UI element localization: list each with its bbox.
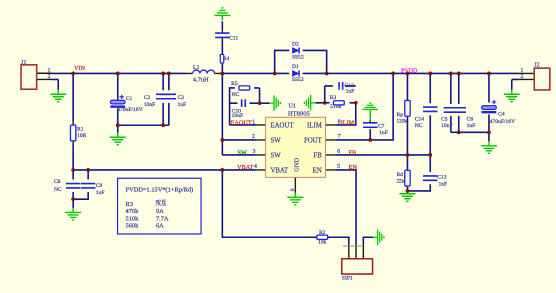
svg-text:SW: SW: [270, 137, 281, 144]
svg-text:510k: 510k: [330, 104, 341, 110]
svg-text:7: 7: [338, 134, 341, 140]
svg-text:Rp: Rp: [397, 112, 404, 118]
svg-text:7.7A: 7.7A: [156, 215, 169, 222]
svg-text:470k: 470k: [126, 208, 140, 215]
svg-text:D1: D1: [292, 64, 299, 70]
svg-text:C3: C3: [177, 95, 184, 101]
svg-text:4.7uH: 4.7uH: [193, 77, 209, 84]
svg-text:EN: EN: [349, 164, 358, 171]
svg-text:C6: C6: [467, 116, 474, 122]
svg-text:10nF: 10nF: [144, 102, 156, 108]
svg-text:U1: U1: [288, 102, 296, 109]
svg-text:3: 3: [253, 149, 256, 155]
svg-text:120k: 120k: [397, 119, 408, 125]
svg-text:8: 8: [338, 119, 341, 125]
svg-text:470uF/16V: 470uF/16V: [490, 119, 516, 125]
svg-text:R4: R4: [223, 56, 229, 62]
svg-text:1nF: 1nF: [379, 130, 388, 136]
svg-text:SW: SW: [270, 152, 281, 159]
svg-text:FB: FB: [313, 152, 322, 159]
svg-text:2: 2: [252, 134, 255, 140]
svg-text:R5: R5: [231, 81, 238, 87]
svg-text:L1: L1: [193, 65, 200, 71]
svg-text:C9: C9: [96, 183, 103, 189]
svg-text:NC: NC: [415, 123, 423, 129]
svg-text:5: 5: [337, 164, 340, 170]
svg-text:6A: 6A: [156, 223, 164, 230]
svg-text:C11: C11: [229, 35, 238, 41]
svg-text:POUT: POUT: [304, 137, 323, 144]
svg-text:C7: C7: [378, 124, 385, 130]
svg-text:22k: 22k: [396, 179, 404, 185]
svg-text:C13: C13: [437, 175, 447, 181]
svg-text:EAOUT: EAOUT: [231, 119, 252, 126]
svg-text:2: 2: [520, 74, 523, 80]
svg-text:2: 2: [47, 74, 50, 80]
svg-text:VBAT: VBAT: [237, 164, 253, 171]
svg-text:510k: 510k: [126, 215, 140, 222]
svg-text:PVDD=1.15V*(1+Rp/Rd): PVDD=1.15V*(1+Rp/Rd): [126, 187, 194, 194]
svg-text:FB: FB: [349, 150, 357, 157]
svg-text:C8: C8: [54, 179, 61, 185]
svg-text:ILIM: ILIM: [307, 122, 322, 129]
svg-text:NC: NC: [232, 92, 240, 98]
svg-text:C5: C5: [441, 116, 448, 122]
svg-text:1nF: 1nF: [438, 182, 447, 188]
svg-text:C1: C1: [126, 96, 133, 102]
svg-text:6: 6: [337, 149, 340, 155]
svg-text:10nF: 10nF: [232, 113, 244, 119]
svg-text:VBAT: VBAT: [270, 167, 289, 174]
svg-text:ILIM: ILIM: [341, 119, 355, 126]
svg-text:NC: NC: [54, 187, 62, 193]
svg-text:R3: R3: [126, 201, 133, 208]
svg-text:10nF: 10nF: [441, 123, 453, 129]
svg-text:EN: EN: [313, 167, 322, 174]
svg-text:10R: 10R: [77, 133, 87, 139]
svg-text:C14: C14: [415, 116, 425, 122]
svg-text:R2: R2: [319, 230, 326, 236]
svg-text:SS52: SS52: [292, 55, 304, 61]
svg-text:10k: 10k: [318, 240, 327, 246]
svg-text:J2: J2: [534, 62, 539, 68]
svg-text:SW: SW: [237, 149, 246, 156]
svg-text:R1: R1: [77, 127, 84, 133]
svg-text:C4: C4: [498, 111, 505, 117]
svg-text:C2: C2: [144, 95, 151, 101]
svg-text:560k: 560k: [126, 223, 140, 230]
svg-text:Rd: Rd: [396, 172, 403, 178]
svg-text:SS52: SS52: [292, 77, 304, 83]
svg-text:J1: J1: [21, 60, 26, 66]
svg-text:1nF: 1nF: [177, 102, 186, 108]
svg-text:PVDD: PVDD: [401, 69, 418, 75]
svg-text:EAOUT: EAOUT: [270, 122, 294, 129]
svg-text:470uF/16V: 470uF/16V: [117, 107, 143, 113]
svg-text:1: 1: [252, 119, 255, 125]
svg-text:4: 4: [254, 164, 257, 170]
svg-text:9A: 9A: [156, 208, 164, 215]
svg-text:0: 0: [290, 188, 296, 191]
svg-text:1uF: 1uF: [96, 190, 105, 196]
svg-text:D2: D2: [292, 42, 299, 48]
svg-text:1nF: 1nF: [346, 88, 355, 94]
svg-text:SIP1: SIP1: [342, 276, 353, 282]
svg-text:1nF: 1nF: [467, 123, 476, 129]
svg-text:1: 1: [520, 68, 523, 74]
svg-text:HT8905: HT8905: [288, 110, 311, 117]
svg-text:VIN: VIN: [74, 65, 86, 72]
svg-text:GND: GND: [293, 158, 300, 172]
svg-text:R3: R3: [330, 95, 337, 101]
